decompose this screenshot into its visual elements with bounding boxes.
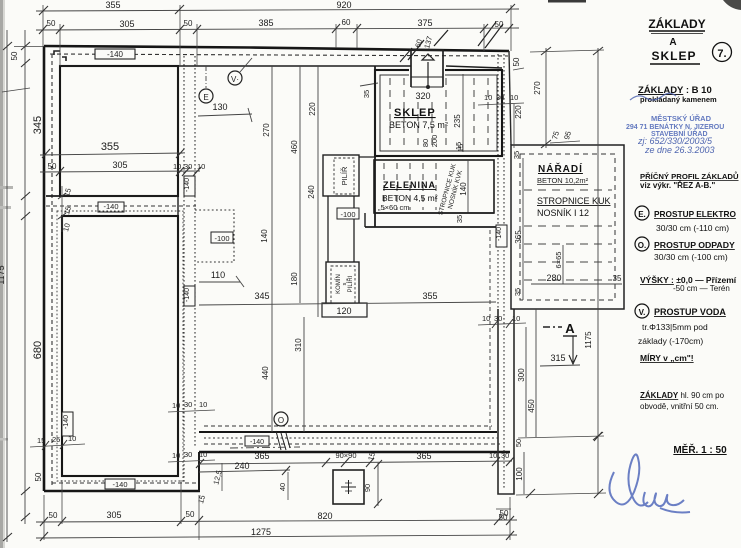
- dim row2 y=29: [36, 28, 519, 30]
- svg-text:315: 315: [550, 353, 565, 363]
- circle O with section hatches: [274, 412, 288, 426]
- svg-text:10: 10: [173, 162, 181, 171]
- dim 315: [540, 365, 580, 366]
- stamp handwriting blue: [637, 136, 715, 155]
- level box -140 mid: [98, 202, 124, 212]
- zelenina outer box: [374, 160, 494, 213]
- svg-text:294 71 BENÁTKY N. JIZEROU: 294 71 BENÁTKY N. JIZEROU: [626, 122, 724, 131]
- naradi inner dashed box: [520, 154, 615, 300]
- svg-text:220: 220: [308, 102, 317, 116]
- svg-text:375: 375: [417, 18, 432, 28]
- svg-text:7.: 7.: [717, 48, 726, 60]
- 120 label box: [322, 303, 367, 317]
- dim 40 left of pillar: [287, 472, 289, 500]
- svg-text:50: 50: [495, 20, 504, 29]
- svg-text:BETON 4,5 m²: BETON 4,5 m²: [382, 193, 438, 203]
- svg-text:25: 25: [52, 435, 60, 444]
- svg-text:MĚSTSKÝ ÚŘAD: MĚSTSKÝ ÚŘAD: [651, 114, 712, 123]
- svg-text:-140: -140: [250, 439, 264, 446]
- svg-text:440: 440: [261, 366, 270, 380]
- outer wall top: [44, 46, 509, 51]
- circle 7: [713, 43, 732, 62]
- circle V note: [635, 304, 649, 318]
- level box -140 left wall vertical: [62, 412, 73, 436]
- level box -100 pilir: [337, 208, 359, 219]
- sklep joist dashes: [390, 78, 488, 148]
- svg-text:KOMÍN: KOMÍN: [335, 274, 342, 294]
- svg-text:10: 10: [199, 400, 207, 409]
- foundation dotted line right wall a: [497, 54, 499, 309]
- dim 10 30 10 right of sklep (y=104): [478, 103, 524, 105]
- outer wall left: [43, 46, 46, 491]
- svg-text:E.: E.: [638, 210, 646, 219]
- dim 6x65 vertical: [562, 245, 564, 284]
- section A marker: [543, 326, 562, 328]
- svg-text:300: 300: [517, 368, 526, 382]
- level box -140 bottom-left wall: [105, 479, 135, 489]
- svg-text:PILÍŘ: PILÍŘ: [340, 166, 349, 185]
- dim 345/355 horizontal line y=303: [199, 302, 496, 305]
- svg-text:345: 345: [32, 116, 44, 134]
- foundation dashed line under top wall: [50, 54, 508, 56]
- svg-text:200: 200: [430, 135, 439, 148]
- dim 240 line: [199, 470, 290, 472]
- svg-text:820: 820: [317, 511, 332, 521]
- svg-text:120: 120: [336, 306, 351, 316]
- svg-text:680: 680: [32, 341, 44, 359]
- circle E: [199, 89, 213, 103]
- circle E note: [635, 206, 649, 220]
- svg-text:NOSNÍK I 12: NOSNÍK I 12: [537, 208, 589, 218]
- svg-text:240: 240: [234, 461, 249, 471]
- pilir middle strip: [327, 196, 329, 262]
- svg-text:80: 80: [421, 139, 430, 147]
- tick line at y=437: [518, 436, 604, 438]
- dim 110 line: [199, 281, 240, 283]
- svg-text:V·: V·: [231, 75, 239, 84]
- svg-text:270: 270: [533, 81, 542, 95]
- outer wall right upper segment: [509, 51, 511, 145]
- svg-text:365: 365: [514, 230, 523, 244]
- svg-text:10: 10: [172, 401, 180, 410]
- outer wall step: [198, 452, 200, 491]
- dim line D x=304 lower: [303, 317, 305, 432]
- svg-text:-140: -140: [103, 202, 118, 211]
- blue scribble over prokladany: [630, 93, 676, 100]
- svg-text:ZELENINA: ZELENINA: [383, 180, 436, 190]
- bottom tick line y=494: [516, 493, 606, 495]
- svg-text:50: 50: [47, 19, 56, 28]
- spine wall solid west: [177, 66, 179, 476]
- chimney arrow mark: [422, 54, 434, 60]
- chimney shaft: [411, 50, 443, 87]
- bottom dim row 1275 (y=537): [36, 535, 517, 538]
- level box -100 spine bump: [211, 232, 233, 243]
- svg-text:50: 50: [10, 51, 19, 60]
- svg-text:základy (-170cm): základy (-170cm): [638, 336, 703, 346]
- svg-text:ZÁKLADY hl. 90 cm po: ZÁKLADY hl. 90 cm po: [640, 391, 725, 400]
- svg-text:305: 305: [119, 19, 134, 29]
- svg-text:-140: -140: [107, 50, 124, 59]
- dim row 305 y=172: [40, 171, 200, 172]
- svg-text:PROSTUP VODA: PROSTUP VODA: [654, 307, 726, 317]
- svg-text:PROSTUP ELEKTRO: PROSTUP ELEKTRO: [654, 209, 736, 219]
- chimney inner lines: [411, 76, 443, 78]
- svg-text:50: 50: [34, 472, 43, 481]
- svg-text:10: 10: [172, 451, 180, 460]
- circle V: [228, 71, 242, 85]
- big room right dashed inner: [489, 230, 491, 430]
- naradi outer box: [511, 145, 624, 309]
- dim 130 line: [198, 114, 252, 116]
- svg-text:365: 365: [254, 451, 269, 461]
- svg-text:355: 355: [105, 0, 120, 10]
- dash-dot axis line bottom: [230, 447, 300, 448]
- svg-text:1175: 1175: [0, 265, 6, 284]
- room1 inner walls: [60, 66, 178, 196]
- sklep-zelenina left wall: [374, 66, 376, 227]
- svg-text:30/30 cm (-100 cm): 30/30 cm (-100 cm): [654, 252, 728, 262]
- svg-text:obvodě, vnitřní 50 cm.: obvodě, vnitřní 50 cm.: [640, 402, 719, 411]
- room2 inner walls: [62, 216, 178, 476]
- zelenina joist dashes: [384, 163, 436, 210]
- svg-text:220: 220: [514, 105, 523, 119]
- svg-text:50: 50: [499, 513, 508, 522]
- big room bottom inner wall: [199, 431, 497, 433]
- svg-text:30: 30: [496, 93, 504, 102]
- dim 450 vertical: [535, 309, 537, 437]
- svg-text:viz výkr. "ŘEZ A-B.": viz výkr. "ŘEZ A-B.": [640, 181, 716, 190]
- outer wall bottom-middle: [199, 451, 510, 454]
- dim row 10 30 10 above step (y=412): [168, 410, 215, 412]
- svg-text:O.: O.: [638, 241, 646, 250]
- corner bracket mark: [54, 51, 66, 61]
- svg-text:A: A: [565, 321, 575, 336]
- svg-text:50: 50: [184, 19, 193, 28]
- foundation dashed line bottom-middle wall: [204, 443, 500, 445]
- svg-text:10: 10: [484, 93, 492, 102]
- svg-text:90: 90: [363, 484, 372, 492]
- foundation dotted line right wall b: [503, 54, 505, 490]
- naradi joist dashes horizontal: [524, 190, 612, 280]
- top connector line right: [530, 50, 604, 52]
- svg-text:270: 270: [262, 123, 271, 137]
- svg-text:50: 50: [514, 439, 523, 447]
- slash marks left of chimney: [408, 40, 424, 60]
- bottom mid level box -140: [245, 436, 269, 446]
- svg-text:-140: -140: [496, 227, 503, 241]
- foundation dashed line mid wall: [46, 205, 196, 207]
- svg-text:35: 35: [613, 274, 622, 283]
- svg-text:10: 10: [68, 434, 76, 443]
- svg-text:460: 460: [290, 140, 299, 154]
- svg-text:355: 355: [101, 141, 119, 153]
- sklep inner box: [380, 75, 497, 151]
- svg-text:35: 35: [455, 215, 464, 223]
- left col1 x=7: [6, 30, 8, 542]
- foundation dashed line bottom-left wall: [52, 482, 196, 484]
- svg-text:30: 30: [184, 400, 192, 409]
- dim 140 zelenina right: [467, 160, 469, 213]
- wall between room1 and room2: [46, 195, 178, 197]
- svg-text:35: 35: [362, 90, 371, 98]
- svg-text:-140: -140: [184, 178, 191, 192]
- svg-text:385: 385: [258, 18, 273, 28]
- scan left edge shadow: [0, 0, 3, 548]
- svg-text:30: 30: [494, 314, 502, 323]
- svg-text:50: 50: [512, 57, 521, 66]
- svg-text:SKLEP: SKLEP: [651, 49, 696, 63]
- svg-text:10: 10: [512, 314, 520, 323]
- circle O note: [635, 237, 649, 251]
- svg-text:V.: V.: [639, 308, 646, 317]
- dim line B x=300: [299, 66, 301, 303]
- outer wall right lower pier: [498, 309, 514, 494]
- svg-text:-140: -140: [63, 415, 70, 429]
- dim 235 vertical in sklep: [462, 74, 464, 152]
- svg-text:50: 50: [186, 510, 195, 519]
- svg-text:365: 365: [416, 451, 431, 461]
- svg-text:320: 320: [415, 91, 430, 101]
- svg-text:-50 cm — Terén: -50 cm — Terén: [673, 284, 730, 293]
- svg-text:10: 10: [510, 93, 518, 102]
- bottom dim line 365 / 90x90 / 365 (y=463): [199, 461, 512, 464]
- stamp blue text: [626, 114, 724, 138]
- dim 220 right of sklep: [513, 104, 515, 148]
- left bottom small dims 15 25 10: [30, 444, 85, 447]
- svg-text:10: 10: [199, 450, 207, 459]
- dim 10 30 10 right column top (y=324): [478, 323, 526, 325]
- pillar square 90x90: [333, 470, 364, 504]
- svg-text:920: 920: [336, 0, 351, 10]
- svg-text:-100: -100: [214, 234, 229, 243]
- svg-text:130: 130: [212, 102, 227, 112]
- svg-text:310: 310: [294, 338, 303, 352]
- svg-text:30: 30: [501, 451, 509, 460]
- svg-text:60: 60: [342, 18, 351, 27]
- wall below zelenina: [374, 212, 494, 214]
- big room dashed inner bottom: [204, 425, 492, 427]
- svg-text:35: 35: [512, 151, 521, 159]
- top wall inner line: [60, 65, 411, 67]
- svg-text:ZÁKLADY: ZÁKLADY: [648, 16, 705, 31]
- horizontal connector ticks at top of cols: [2, 88, 30, 92]
- dim 300 vertical: [525, 327, 527, 437]
- dim line x=598 (1175 tall): [597, 48, 599, 494]
- svg-text:PŘÍČNÝ PROFIL ZÁKLADŮ: PŘÍČNÝ PROFIL ZÁKLADŮ: [640, 171, 739, 181]
- svg-text:BETON 10,2m²: BETON 10,2m²: [537, 176, 589, 185]
- svg-text:140: 140: [459, 182, 468, 196]
- svg-text:345: 345: [254, 291, 269, 301]
- svg-text:280: 280: [546, 273, 561, 283]
- slash mark right of chimney: [434, 30, 448, 46]
- scan top edge marks: [548, 0, 586, 3]
- svg-text:-140: -140: [184, 288, 191, 302]
- pillar link line to zelenina wall: [359, 156, 376, 158]
- dim line x=546 (270): [545, 48, 547, 148]
- svg-text:30/30 cm (-110 cm): 30/30 cm (-110 cm): [656, 223, 729, 233]
- svg-text:100: 100: [515, 467, 524, 481]
- svg-text:PILÍŘI: PILÍŘI: [346, 275, 354, 292]
- dim row 355 y=154: [40, 153, 183, 155]
- scan smudges left edge: [0, 186, 13, 189]
- svg-text:tr.Φ133|5mm pod: tr.Φ133|5mm pod: [642, 322, 708, 332]
- svg-text:BETON 7,5 m²: BETON 7,5 m²: [389, 120, 448, 130]
- dim line A x=272: [271, 66, 273, 432]
- svg-text:35: 35: [513, 288, 522, 296]
- svg-text:140: 140: [260, 229, 269, 243]
- svg-text:450: 450: [527, 399, 536, 413]
- foundation dashed line bottom-middle wall 2: [204, 437, 500, 439]
- svg-text:235: 235: [453, 114, 462, 128]
- outer wall bottom-left: [44, 490, 200, 493]
- svg-text:355: 355: [422, 291, 437, 301]
- svg-text:6×65: 6×65: [554, 252, 563, 269]
- svg-text:1175: 1175: [584, 331, 593, 349]
- svg-text:110: 110: [211, 270, 225, 280]
- dim 12,5 vertical: [221, 463, 223, 491]
- level box -140 spine lower: [184, 286, 195, 306]
- svg-text:15: 15: [456, 144, 465, 152]
- bottom dim row 50/305/50/820/50 (y=521): [36, 520, 517, 522]
- svg-text:15: 15: [37, 436, 45, 445]
- svg-text:30: 30: [184, 450, 192, 459]
- svg-text:10: 10: [489, 451, 497, 460]
- svg-text:30: 30: [184, 162, 192, 171]
- spine wall dotted east: [194, 56, 196, 448]
- svg-text:A: A: [669, 37, 676, 48]
- dim 100 vertical: [523, 452, 525, 494]
- dim row1 y=10: [36, 9, 519, 11]
- bottom extension lines: [44, 480, 510, 540]
- dim line C x=318: [317, 66, 319, 317]
- svg-text:O: O: [278, 416, 284, 425]
- chimney white interior: [409, 57, 445, 86]
- extension lines top: [43, 5, 511, 66]
- svg-text:-140: -140: [112, 480, 127, 489]
- double slash marks far right top wall: [478, 22, 496, 46]
- level box -140 top: [95, 49, 135, 59]
- foundation dotted ring room2: [57, 211, 183, 481]
- svg-text:305: 305: [112, 160, 127, 170]
- dim 365 naradi left: [522, 158, 524, 300]
- left col2 x=25: [24, 30, 26, 524]
- sklep outer box: [375, 70, 502, 156]
- svg-text:-100: -100: [340, 210, 355, 219]
- svg-text:ze dne 26.3.2003: ze dne 26.3.2003: [644, 145, 715, 155]
- spine bump: [195, 210, 234, 262]
- level box -140 right wall vertical: [496, 225, 507, 247]
- pilir top box: [323, 155, 359, 196]
- svg-text:180: 180: [290, 272, 299, 286]
- svg-text:50: 50: [48, 162, 57, 171]
- svg-text:SKLEP: SKLEP: [394, 107, 436, 119]
- svg-text:PROSTUP ODPADY: PROSTUP ODPADY: [654, 240, 735, 250]
- svg-text:MÍRY v „cm"!: MÍRY v „cm"!: [640, 353, 694, 363]
- komin bottom box: [326, 262, 359, 306]
- svg-text:40: 40: [278, 483, 287, 491]
- svg-text:E: E: [203, 93, 208, 102]
- blue signature: [609, 454, 690, 512]
- dim 90 right of pillar: [377, 463, 379, 506]
- svg-text:STROPNICE KUK: STROPNICE KUK: [537, 196, 611, 206]
- dim 280 naradi bottom: [531, 283, 622, 285]
- level box -140 spine upper: [184, 176, 195, 196]
- foundation dashed line left wall inner: [51, 54, 53, 486]
- svg-text:90×90: 90×90: [335, 451, 356, 460]
- svg-text:NÁŘADÍ: NÁŘADÍ: [538, 162, 583, 175]
- svg-text:10: 10: [482, 314, 490, 323]
- svg-text:1275: 1275: [251, 527, 271, 537]
- svg-text:„5×60 cm: „5×60 cm: [378, 203, 409, 212]
- spine wall dotted west: [183, 56, 185, 482]
- svg-text:240: 240: [307, 185, 316, 199]
- dim row 10 30 10 at step (y=462): [168, 460, 215, 462]
- svg-text:10: 10: [197, 162, 205, 171]
- svg-text:50: 50: [49, 511, 58, 520]
- svg-text:MĚŘ. 1 : 50: MĚŘ. 1 : 50: [673, 443, 727, 456]
- svg-text:305: 305: [106, 510, 121, 520]
